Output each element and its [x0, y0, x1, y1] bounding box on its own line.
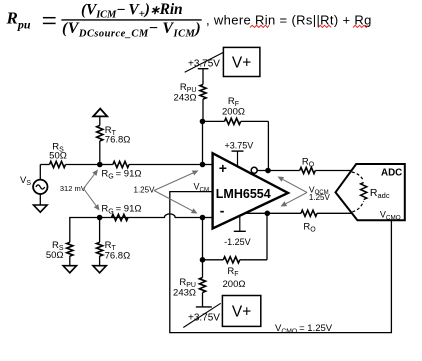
resistor RF bottom	[203, 257, 268, 263]
svg-text:76.8Ω: 76.8Ω	[105, 135, 131, 146]
svg-text:243Ω: 243Ω	[173, 288, 196, 299]
annotation 1.25V with arrows to input nodes	[134, 171, 199, 214]
ground below VS	[34, 205, 48, 212]
resistor RG top	[100, 161, 203, 167]
wire RF bottom up to output node	[266, 213, 268, 259]
svg-text:200Ω: 200Ω	[223, 279, 246, 290]
label RS 50ohm top	[49, 142, 67, 162]
ground below RS bottom	[63, 266, 76, 273]
svg-text:(VDCsource_CM− VICM): (VDCsource_CM− VICM)	[62, 20, 201, 39]
svg-text:VCMO = 1.25V: VCMO = 1.25V	[275, 323, 333, 335]
op-amp bottom supply stub	[234, 216, 246, 232]
spellcheck squiggle under Rg	[353, 25, 368, 27]
ground below RT bottom	[93, 266, 106, 273]
svg-text:312 mV: 312 mV	[60, 184, 86, 193]
svg-text:RO: RO	[303, 222, 316, 234]
svg-text:+3.75V: +3.75V	[188, 313, 220, 324]
svg-text:-1.25V: -1.25V	[224, 237, 251, 247]
wire top junction down to +input node	[202, 121, 204, 164]
svg-text:RF: RF	[227, 266, 238, 278]
formula equals sign	[43, 18, 56, 24]
svg-text:V+: V+	[232, 55, 251, 72]
svg-text:50Ω: 50Ω	[49, 151, 67, 162]
resistor RO top	[300, 167, 352, 173]
V+ box bottom	[222, 296, 260, 327]
wire bottom rail with hop over feedback	[100, 214, 203, 218]
svg-text:RG = 91Ω: RG = 91Ω	[101, 204, 141, 216]
annotation VOCM 1.25V with arrows to output nodes	[278, 177, 331, 207]
svg-text:1.25V: 1.25V	[309, 193, 331, 202]
svg-text:+3.75V: +3.75V	[225, 141, 254, 151]
formula Rpu term	[6, 9, 31, 32]
wire -input node down to RF bottom	[202, 218, 204, 260]
wire bottom node down-left to RS/RT bottom	[70, 218, 100, 243]
node RF/RPU bottom junction	[200, 257, 206, 263]
wire diagonal from V+ box to RPU top terminal	[185, 52, 224, 72]
wire VCMO feedback loop	[170, 192, 392, 333]
resistor RT top	[97, 117, 103, 165]
node top output junction	[265, 168, 271, 174]
svg-text:50Ω: 50Ω	[46, 250, 64, 261]
svg-text:200Ω: 200Ω	[222, 107, 245, 118]
resistor RPU bottom	[199, 260, 205, 307]
svg-text:Rpu: Rpu	[6, 9, 31, 32]
resistor RO bottom	[301, 210, 352, 216]
node bottom output junction	[265, 211, 271, 217]
node -input junction	[200, 215, 206, 221]
svg-text:, where Rin = (Rs||Rt) + Rg: , where Rin = (Rs||Rt) + Rg	[206, 13, 372, 28]
svg-text:RO: RO	[302, 157, 315, 169]
label RF 200ohm bottom	[223, 266, 246, 290]
formula denominator (V_DCsource_CM - V_ICM)	[62, 20, 201, 39]
svg-text:1.25V: 1.25V	[134, 186, 156, 195]
ground up-triangle above RT top	[93, 109, 107, 117]
svg-text:+3.75V: +3.75V	[188, 59, 220, 70]
spellcheck squiggle under Rin	[250, 25, 269, 27]
svg-text:(VICM− V+)∗Rin: (VICM− V+)∗Rin	[81, 1, 182, 21]
wire RF top to output node	[267, 121, 269, 170]
resistor Radc	[361, 183, 367, 200]
svg-text:ADC: ADC	[381, 168, 402, 179]
svg-text:76.8Ω: 76.8Ω	[105, 251, 131, 262]
wire +input node to amp	[203, 164, 213, 166]
spellcheck squiggle under Rt	[318, 25, 331, 27]
svg-text:-: -	[220, 202, 225, 218]
node RPU/RF top junction	[200, 119, 206, 125]
label RPU 243ohm top	[174, 82, 197, 104]
wire bottom output	[245, 212, 302, 214]
svg-text:V+: V+	[232, 304, 251, 321]
resistor RS top	[40, 161, 100, 167]
node top input junction	[97, 162, 103, 168]
op-amp top supply stub	[232, 151, 244, 166]
node bottom input junction	[97, 215, 103, 221]
label RS 50ohm bottom	[46, 240, 64, 261]
source VS	[33, 165, 47, 206]
label RT 76.8ohm bottom	[105, 240, 131, 262]
label RT 76.8ohm top	[105, 125, 131, 146]
terminal T-bar bottom	[196, 306, 212, 308]
formula numerator (V_ICM - V+)*Rin	[81, 1, 182, 21]
resistor RS bottom	[67, 242, 73, 265]
svg-text:+: +	[219, 160, 227, 176]
resistor RF top	[203, 118, 269, 124]
resistor RPU top	[200, 85, 206, 122]
svg-text:LMH6554: LMH6554	[216, 187, 271, 201]
label RPU 243ohm bottom	[173, 277, 196, 299]
resistor RG bottom	[112, 214, 129, 220]
ADC block	[336, 164, 405, 220]
svg-text:243Ω: 243Ω	[174, 93, 197, 104]
wire diagonal from V+ box bottom to RPU terminal	[183, 303, 220, 327]
formula fraction bar	[61, 19, 201, 21]
op-amp U1 LMH6554 triangle	[213, 153, 288, 228]
V+ box top	[223, 47, 260, 76]
node +input junction	[200, 162, 206, 168]
wire top output	[257, 170, 300, 172]
svg-text:RG = 91Ω: RG = 91Ω	[101, 169, 141, 181]
wire -input node to amp	[203, 217, 213, 219]
annotation 312 mV with arrows	[60, 170, 100, 211]
label RF 200ohm top	[222, 96, 245, 118]
resistor RT bottom	[97, 242, 103, 265]
inversion bubble on top output	[251, 167, 257, 173]
terminal T-bar top	[198, 69, 209, 85]
resistor Radc dashed links	[352, 172, 364, 212]
svg-text:VS: VS	[20, 175, 31, 187]
